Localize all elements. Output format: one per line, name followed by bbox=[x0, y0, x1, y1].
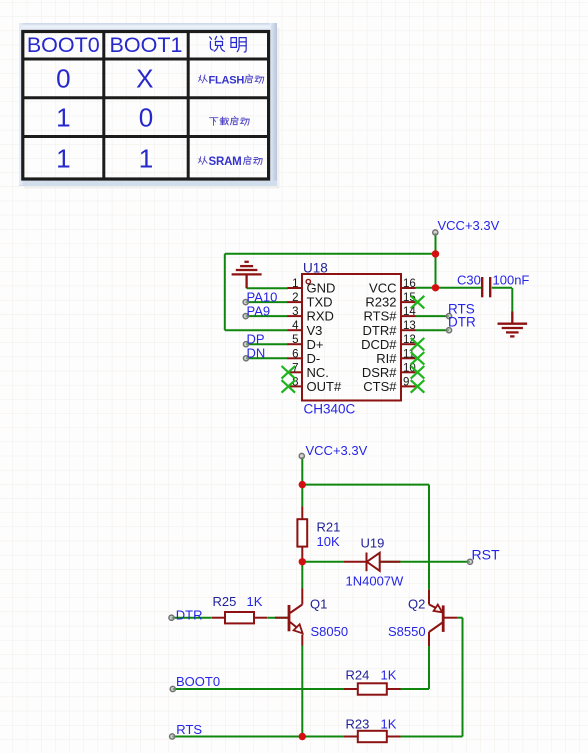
svg-text:CTS#: CTS# bbox=[363, 379, 397, 394]
no-connect pin11 bbox=[411, 352, 425, 365]
U18 pin 16 VCC bbox=[369, 278, 416, 296]
net label DN bbox=[243, 346, 265, 361]
svg-text:RST: RST bbox=[472, 547, 500, 563]
wire pin13 DTR bbox=[416, 329, 450, 331]
svg-text:RTS: RTS bbox=[176, 722, 202, 737]
svg-text:OUT#: OUT# bbox=[307, 379, 342, 394]
no-connect pin10 bbox=[411, 366, 425, 379]
svg-text:R24: R24 bbox=[346, 668, 370, 683]
svg-text:3: 3 bbox=[292, 306, 298, 318]
svg-text:1: 1 bbox=[56, 102, 70, 132]
net label PA9 bbox=[243, 304, 270, 319]
table row2: 1 / 0 / 下载启动 bbox=[56, 102, 249, 132]
svg-text:DSR#: DSR# bbox=[362, 365, 397, 380]
svg-text:5: 5 bbox=[292, 334, 298, 346]
svg-text:100nF: 100nF bbox=[493, 273, 530, 288]
svg-text:RI#: RI# bbox=[376, 351, 397, 366]
svg-text:DTR: DTR bbox=[176, 607, 203, 622]
svg-text:U19: U19 bbox=[361, 536, 385, 551]
U18 pin 5 D+ bbox=[288, 334, 324, 352]
svg-text:DTR: DTR bbox=[448, 315, 476, 330]
svg-text:PA9: PA9 bbox=[247, 304, 271, 319]
wire Q1 emitter down to RTS row bbox=[301, 646, 303, 737]
wire diode to RST bbox=[380, 561, 470, 563]
junction VCC/pin16/C30 bbox=[432, 284, 439, 291]
svg-text:BOOT1: BOOT1 bbox=[110, 33, 183, 57]
table grid lines bbox=[23, 30, 269, 180]
svg-text:R25: R25 bbox=[213, 594, 237, 609]
no-connect pin15 bbox=[411, 296, 425, 309]
resistor R24 body bbox=[344, 683, 400, 694]
diode U19 1N4007W bbox=[344, 553, 400, 572]
net label RTS (bottom) bbox=[170, 722, 203, 739]
svg-text:PA10: PA10 bbox=[247, 290, 278, 305]
net label BOOT0 bbox=[170, 674, 220, 692]
table header 说明 bbox=[210, 36, 247, 52]
wire VCC vertical bbox=[435, 233, 437, 288]
U18 pin 15 R232 bbox=[365, 292, 415, 310]
svg-text:TXD: TXD bbox=[307, 295, 333, 310]
svg-text:R232: R232 bbox=[365, 295, 396, 310]
net label RST bbox=[467, 547, 500, 565]
U18 pin 12 DCD# bbox=[361, 334, 416, 352]
pin1 marker dot bbox=[306, 279, 310, 283]
svg-text:1: 1 bbox=[56, 143, 70, 173]
svg-text:4: 4 bbox=[292, 320, 299, 332]
U18 pin 8 OUT# bbox=[288, 376, 342, 394]
resistor R23 body bbox=[344, 731, 400, 742]
transistor Q1 S8050 (NPN) bbox=[275, 589, 303, 646]
wire GND to pin1 bbox=[247, 287, 288, 289]
resistor R25 body bbox=[211, 612, 267, 623]
wire junction to diode U19 bbox=[302, 561, 344, 563]
junction VCC/loop bbox=[432, 250, 439, 257]
svg-text:VCC: VCC bbox=[369, 281, 396, 296]
U18 pin 7 NC. bbox=[288, 362, 329, 380]
svg-text:1: 1 bbox=[139, 143, 153, 173]
U18 pin 10 DSR# bbox=[362, 362, 416, 380]
capacitor C30 bbox=[482, 277, 490, 297]
junction VCC rail bbox=[299, 481, 306, 488]
resistor R21 (vertical) bbox=[297, 507, 307, 560]
svg-text:GND: GND bbox=[307, 281, 336, 296]
svg-text:CH340C: CH340C bbox=[304, 402, 356, 417]
svg-text:13: 13 bbox=[403, 320, 416, 332]
U18 pin 14 RTS# bbox=[364, 306, 417, 324]
svg-text:6: 6 bbox=[292, 348, 298, 360]
op-amp U18 chip body CH340C bbox=[302, 274, 401, 401]
net label DP bbox=[243, 332, 264, 347]
wire rail down to Q2 emitter bbox=[428, 485, 430, 590]
transistor Q2 S8550 (PNP, mirrored) bbox=[429, 590, 457, 646]
wire to C30 bbox=[436, 287, 482, 289]
svg-text:S8050: S8050 bbox=[311, 624, 349, 639]
svg-text:16: 16 bbox=[403, 278, 416, 290]
svg-text:14: 14 bbox=[403, 306, 416, 318]
svg-text:1: 1 bbox=[292, 278, 298, 290]
svg-text:RTS#: RTS# bbox=[364, 309, 398, 324]
ground (flipped) at U18 GND bbox=[232, 262, 262, 289]
net label DTR (bottom) bbox=[169, 607, 203, 622]
wire VCC rail right bbox=[302, 484, 429, 486]
U18 pin 3 RXD bbox=[288, 306, 334, 324]
wire C30 to ground bbox=[492, 287, 512, 289]
wire R24 right bbox=[400, 688, 429, 690]
no-connect pin7 bbox=[282, 366, 296, 379]
svg-text:C30: C30 bbox=[457, 273, 481, 288]
wire to pin4 V3 bbox=[225, 329, 288, 331]
svg-text:RXD: RXD bbox=[307, 309, 334, 324]
ground below C30 bbox=[498, 312, 528, 337]
svg-text:1K: 1K bbox=[381, 668, 397, 683]
svg-text:D-: D- bbox=[307, 351, 321, 366]
wire loop left vertical bbox=[224, 254, 226, 331]
net label PA10 bbox=[243, 290, 277, 305]
wire to R23 right bbox=[400, 736, 462, 738]
svg-text:Q1: Q1 bbox=[310, 597, 327, 612]
wire Q2 base right bbox=[457, 617, 463, 619]
svg-text:DCD#: DCD# bbox=[361, 337, 397, 352]
svg-text:2: 2 bbox=[292, 292, 298, 304]
wire VCC stem bbox=[301, 457, 303, 485]
svg-text:Q2: Q2 bbox=[408, 597, 425, 612]
U18 pin 6 D- bbox=[288, 348, 321, 366]
svg-text:FLASH: FLASH bbox=[209, 75, 245, 87]
wire DP to pin5 bbox=[246, 343, 288, 345]
wire RTS to R23 bbox=[172, 736, 344, 738]
svg-text:U18: U18 bbox=[303, 260, 328, 275]
U18 pin 13 DTR# bbox=[363, 320, 416, 338]
svg-text:10K: 10K bbox=[317, 534, 340, 549]
wire DTR to R25 bbox=[172, 617, 212, 619]
U18 pin 9 CTS# bbox=[363, 376, 415, 394]
wire to R21 bbox=[301, 485, 303, 507]
wire pin14 RTS bbox=[416, 315, 450, 317]
table frame bevel bbox=[19, 23, 280, 189]
wire pin16 VCC bbox=[416, 287, 436, 289]
svg-text:0: 0 bbox=[139, 102, 153, 132]
svg-text:VCC+3.3V: VCC+3.3V bbox=[306, 443, 368, 458]
svg-text:DN: DN bbox=[247, 346, 266, 361]
U18 pin 4 V3 bbox=[288, 320, 323, 338]
net label DTR (mid) bbox=[446, 315, 476, 333]
table row3: 1 / 1 / 从SRAM启动 bbox=[56, 143, 262, 173]
net label RTS (mid) bbox=[446, 302, 474, 319]
wire up to Q2 collector bbox=[428, 646, 430, 689]
wire DN to pin6 bbox=[246, 357, 288, 359]
no-connect pin8 bbox=[282, 380, 296, 393]
no-connect pin12 bbox=[411, 338, 425, 351]
U18 pin 11 RI# bbox=[376, 348, 415, 366]
svg-text:0: 0 bbox=[56, 64, 70, 94]
svg-text:D+: D+ bbox=[307, 337, 324, 352]
svg-text:DTR#: DTR# bbox=[363, 323, 398, 338]
svg-text:V3: V3 bbox=[307, 323, 323, 338]
svg-text:DP: DP bbox=[247, 332, 265, 347]
svg-text:SRAM: SRAM bbox=[209, 156, 242, 168]
svg-text:S8550: S8550 bbox=[388, 624, 426, 639]
no-connect pin9 bbox=[411, 380, 425, 393]
wire PA10 to pin2 bbox=[246, 301, 288, 303]
svg-text:R23: R23 bbox=[346, 717, 370, 732]
junction Q1 emitter/RTS row bbox=[299, 733, 306, 740]
svg-text:BOOT0: BOOT0 bbox=[176, 674, 220, 689]
junction R21/diode/Q1 bbox=[299, 558, 306, 565]
wire down to ground bbox=[511, 288, 513, 312]
svg-text:NC.: NC. bbox=[307, 365, 329, 380]
svg-text:BOOT0: BOOT0 bbox=[27, 33, 100, 57]
svg-text:R21: R21 bbox=[317, 520, 341, 535]
svg-text:1K: 1K bbox=[381, 717, 397, 732]
net label VCC+3.3V (bottom) bbox=[299, 443, 367, 459]
wire R25 to Q1 base bbox=[268, 617, 288, 619]
net label VCC+3.3V (top) bbox=[433, 218, 500, 235]
wire BOOT0 to R24 bbox=[173, 688, 345, 690]
wire R21 to Q1 collector bbox=[301, 560, 303, 589]
svg-text:1N4007W: 1N4007W bbox=[346, 574, 405, 589]
svg-text:9: 9 bbox=[403, 376, 409, 388]
U18 pin 2 TXD bbox=[288, 292, 333, 310]
svg-text:1K: 1K bbox=[247, 594, 263, 609]
U18 pin 1 GND bbox=[288, 278, 336, 296]
wire Q2 base down to R23 bbox=[462, 618, 464, 737]
table row1: 0 / X / 从FLASH启动 bbox=[56, 64, 264, 94]
svg-text:VCC+3.3V: VCC+3.3V bbox=[438, 218, 500, 233]
svg-text:X: X bbox=[136, 64, 153, 94]
wire VCC loop top bbox=[225, 253, 436, 255]
wire PA9 to pin3 bbox=[246, 315, 288, 317]
